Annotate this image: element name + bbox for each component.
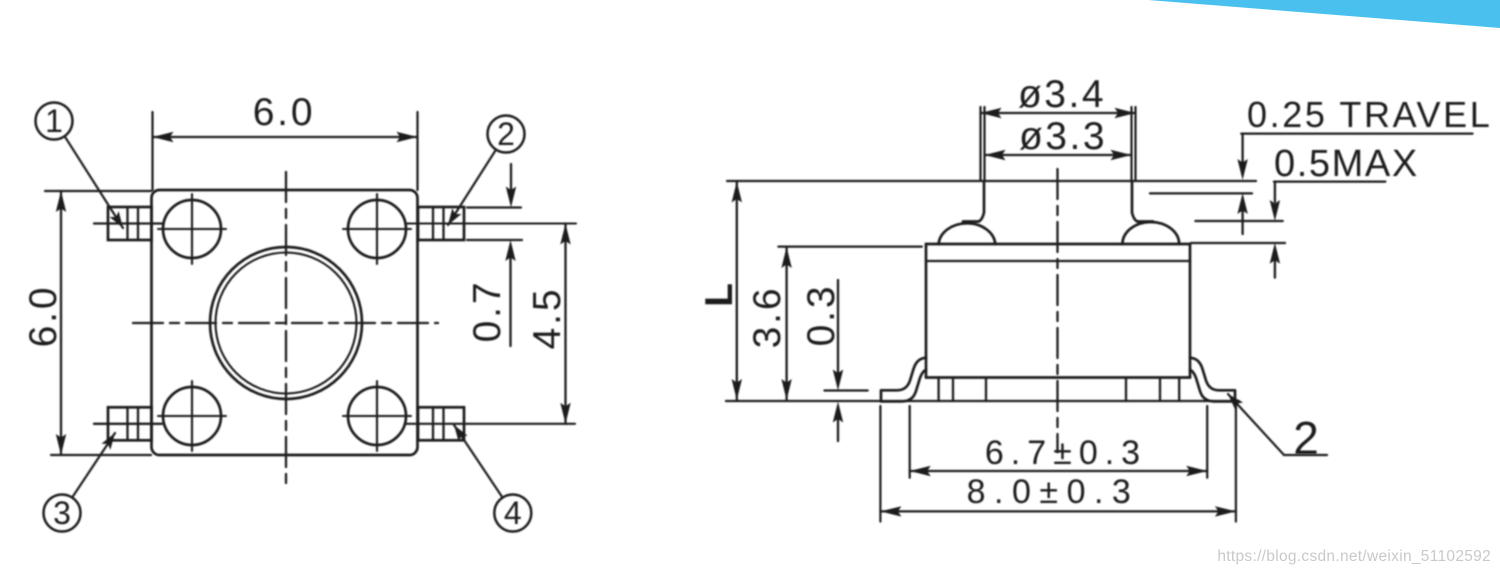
- leader 2: [448, 150, 496, 225]
- body flange line: [926, 260, 1190, 262]
- dim 6.7 dimension line: [910, 470, 1207, 472]
- svg-text:4.5: 4.5: [526, 287, 569, 350]
- gull-wing lead left: [881, 358, 926, 402]
- leader 4: [454, 425, 503, 498]
- crosshair pin1: [158, 194, 226, 264]
- 0.25 TRAVEL leader drop + arrows: [1241, 134, 1243, 162]
- seating plane line: [726, 400, 1239, 402]
- dim L dimension line: [736, 182, 738, 401]
- svg-text:2: 2: [1293, 412, 1319, 464]
- central button outer circle: [210, 247, 362, 399]
- svg-text:ø3.4: ø3.4: [1018, 73, 1106, 116]
- leader 3: [73, 433, 116, 497]
- dim o3.4 dimension line: [981, 112, 1136, 114]
- stem top reference line: [727, 180, 1256, 182]
- dome bump right: [1122, 222, 1179, 244]
- svg-text:1: 1: [45, 103, 63, 139]
- balloon 1: [36, 103, 73, 140]
- dome bump left: [939, 223, 996, 244]
- dim 3.6 top extension: [778, 246, 921, 248]
- dim 6.7 extension lines: [909, 406, 911, 478]
- stem shoulder reference line: [1195, 220, 1282, 222]
- base strip cells: [939, 378, 1180, 402]
- dim 8.0 extension lines: [879, 406, 881, 522]
- dim 0.3 foot-top extension: [824, 389, 867, 391]
- dim 6.0 top: dimension line: [153, 136, 418, 138]
- dim o3.3 extension lines: [983, 107, 985, 180]
- body left side: [925, 244, 928, 378]
- dim 6.0 left: extension lines: [45, 190, 151, 192]
- stem right side: [1132, 181, 1153, 222]
- tab centerline pin1: [94, 222, 162, 224]
- dim 0.3 arrows: [837, 280, 839, 372]
- tab centerline pin4 / 4.5 bottom extension: [406, 423, 575, 425]
- dim 0.7: extension lines: [467, 206, 521, 208]
- dim 6.0 left: dimension line: [60, 191, 62, 455]
- contact circle pin4: [348, 387, 406, 445]
- svg-text:0.3: 0.3: [800, 284, 843, 347]
- gull-wing lead right: [1190, 358, 1235, 402]
- text layer: [22, 73, 1492, 531]
- leader 1: [65, 136, 123, 228]
- contact circle pin3: [163, 387, 221, 445]
- pressed position line: [1150, 192, 1252, 194]
- svg-text:2: 2: [497, 116, 515, 152]
- stem left side: [963, 181, 984, 222]
- central button inner circle: [216, 253, 357, 394]
- crosshair pin3: [158, 381, 226, 451]
- svg-text:6.0: 6.0: [253, 91, 316, 134]
- tab centerline pin3: [94, 423, 162, 425]
- svg-text:0.25 TRAVEL: 0.25 TRAVEL: [1247, 94, 1492, 135]
- svg-text:0.5MAX: 0.5MAX: [1274, 143, 1419, 185]
- dim 6.0 top: extension lines: [151, 112, 153, 190]
- body right side: [1189, 244, 1192, 378]
- 0.25 TRAVEL leader underline: [1241, 132, 1472, 134]
- switch body outline: [152, 190, 418, 455]
- crosshair pin2: [343, 194, 411, 264]
- balloon 3: [44, 495, 81, 532]
- dim 4.5: dimension line: [564, 224, 566, 424]
- svg-text:3: 3: [53, 495, 71, 531]
- balloon 2: [488, 116, 525, 153]
- tab centerline pin2 / 4.5 top extension: [406, 222, 576, 224]
- dim 3.6 dimension line: [785, 247, 787, 400]
- terminal tab pin2: [418, 207, 464, 240]
- svg-text:ø3.3: ø3.3: [1019, 115, 1107, 158]
- body top edge: [926, 243, 1190, 246]
- svg-text:https://blog.csdn.net/weixin_5: https://blog.csdn.net/weixin_51102592: [1217, 548, 1491, 565]
- balloon 4: [494, 495, 531, 532]
- svg-text:L: L: [698, 283, 741, 307]
- side view vertical centerline: [1056, 169, 1058, 452]
- contact circle pin2: [348, 200, 406, 258]
- leader 2 (terminal callout): [1228, 394, 1284, 455]
- 0.5MAX leader underline: [1274, 180, 1385, 182]
- body bottom / base top: [926, 376, 1190, 379]
- dim 0.7: arrows: [510, 164, 512, 190]
- terminal tab pin1: [108, 207, 152, 240]
- cyan banner wedge top-right: [1148, 0, 1500, 28]
- contact circle pin1: [163, 200, 221, 258]
- 0.5MAX leader drop + arrows: [1274, 182, 1276, 202]
- terminal tab pin4: [418, 407, 464, 440]
- svg-text:0.7: 0.7: [466, 280, 509, 343]
- vertical centerline: [285, 172, 287, 484]
- dim o3.3 dimension line: [985, 154, 1132, 156]
- svg-text:8.0±0.3: 8.0±0.3: [967, 473, 1140, 511]
- horizontal centerline: [133, 322, 438, 324]
- crosshair pin4: [343, 381, 411, 451]
- svg-text:3.6: 3.6: [746, 286, 789, 349]
- dim o3.4 extension lines: [979, 107, 981, 180]
- svg-text:6.7±0.3: 6.7±0.3: [985, 434, 1147, 472]
- svg-text:6.0: 6.0: [22, 285, 65, 348]
- terminal tab pin3: [108, 407, 152, 440]
- dim 8.0 dimension line: [880, 510, 1236, 512]
- svg-text:4: 4: [504, 495, 522, 531]
- body top extension right: [1191, 242, 1285, 244]
